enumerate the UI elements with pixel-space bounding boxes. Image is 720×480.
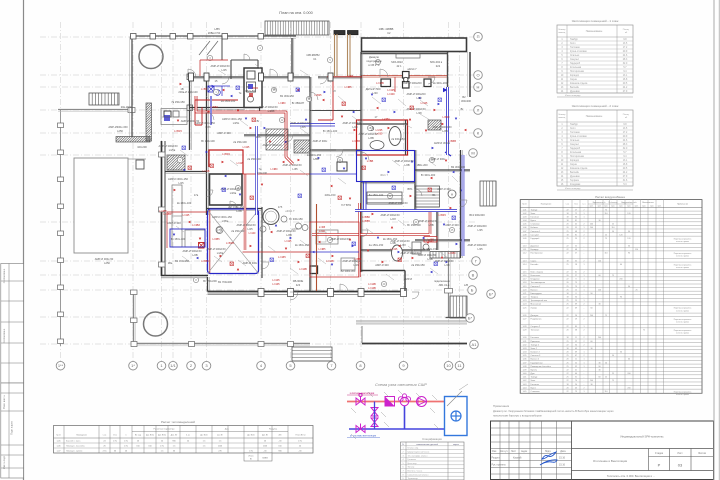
svg-text:1: 1 — [583, 279, 584, 281]
svg-text:АМР-И 300х150: АМР-И 300х150 — [158, 144, 178, 148]
svg-text:22: 22 — [566, 246, 568, 248]
svg-text:Санузел: Санузел — [570, 59, 580, 61]
fan symbol circle M — [448, 190, 456, 198]
svg-text:Спальня: Спальня — [570, 55, 580, 57]
svg-text:30: 30 — [628, 286, 630, 288]
svg-text:L=440: L=440 — [427, 240, 434, 243]
svg-text:Индивидуальный SPA-комплекс: Индивидуальный SPA-комплекс — [620, 435, 664, 439]
svg-text:Кухня: Кухня — [531, 220, 536, 222]
pool room blue walls — [208, 209, 259, 274]
svg-text:Гардероб: Гардероб — [531, 238, 541, 240]
svg-text:L=В50: L=В50 — [201, 259, 209, 263]
svg-text:8: 8 — [575, 293, 576, 295]
svg-text:10В-9ВУВ2: 10В-9ВУВ2 — [306, 53, 320, 57]
right rooms dividers — [361, 150, 470, 252]
svg-text:2в 300х-200: 2в 300х-200 — [433, 81, 448, 85]
svg-text:помещ.: помещ. — [558, 117, 566, 119]
svg-text:Диаметр эл. безружными блоками: Диаметр эл. безружными блоками главбашко… — [493, 409, 614, 413]
svg-text:Ванная: Ванная — [531, 289, 538, 291]
svg-text:18: 18 — [566, 216, 568, 218]
shelf rect above jacuzzi — [396, 54, 420, 58]
svg-text:Постирочная: Постирочная — [570, 156, 585, 158]
svg-text:22: 22 — [566, 369, 568, 371]
red fixture square corridor — [199, 243, 205, 249]
svg-text:30х1 7: 30х1 7 — [380, 173, 388, 177]
svg-text:Бассейн с ванн.: Бассейн с ванн. — [66, 440, 81, 443]
svg-text:L/26: L/26 — [205, 125, 211, 129]
svg-text:Джакузи: Джакузи — [369, 55, 380, 59]
svg-text:1В: 1В — [180, 87, 183, 91]
svg-text:Дв. Вт/м: Дв. Вт/м — [200, 435, 208, 437]
svg-text:1-34: 1-34 — [523, 352, 527, 354]
svg-text:52: 52 — [575, 341, 577, 343]
svg-text:57: 57 — [575, 253, 577, 255]
svg-text:Душевая: Душевая — [531, 246, 539, 248]
svg-text:110: 110 — [611, 227, 614, 229]
svg-text:20: 20 — [566, 224, 568, 226]
porch stairs top-left — [89, 93, 119, 105]
jacuzzi dumbbell — [403, 72, 410, 89]
svg-text:81: 81 — [575, 220, 577, 222]
extra red value labels — [183, 86, 457, 261]
svg-text:Итого: Итого — [249, 456, 254, 458]
svg-text:1-26: 1-26 — [523, 315, 527, 317]
wall x310 vertical — [309, 77, 311, 150]
svg-text:естеств. приток: естеств. приток — [676, 333, 689, 335]
svg-text:L/26в: L/26в — [217, 251, 224, 255]
svg-text:18: 18 — [566, 293, 568, 295]
fan coil unit box (blue) — [445, 391, 468, 436]
svg-text:1/1: 1/1 — [170, 363, 176, 368]
svg-text:Б: Б — [471, 287, 474, 292]
svg-text:90: 90 — [620, 297, 622, 299]
svg-text:естеств. приток: естеств. приток — [676, 256, 689, 258]
svg-text:Гардероб: Гардероб — [570, 148, 581, 150]
svg-text:Массажная: Массажная — [531, 304, 542, 306]
svg-text:L=440: L=440 — [249, 232, 256, 235]
svg-text:18: 18 — [566, 384, 568, 386]
bed furniture bottom room — [316, 230, 355, 270]
wall vertical x361 — [360, 52, 362, 272]
svg-text:Дв. Вт/м: Дв. Вт/м — [247, 435, 255, 437]
svg-text:Согласовано: Согласовано — [3, 328, 6, 343]
svg-text:25: 25 — [566, 366, 568, 368]
svg-text:20: 20 — [575, 384, 577, 386]
svg-text:L=ЗВ0: L=ЗВ0 — [448, 252, 456, 255]
wall horizontal y135 — [244, 134, 310, 136]
svg-text:Экспликация помещений - 2 этаж: Экспликация помещений - 2 этаж — [572, 104, 619, 108]
svg-text:1-20: 1-20 — [523, 289, 527, 291]
svg-text:L=44В: L=44В — [203, 170, 210, 173]
svg-text:120: 120 — [627, 213, 630, 215]
svg-text:L=4ВВ: L=4ВВ — [352, 139, 360, 143]
svg-text:1: 1 — [583, 275, 584, 277]
svg-text:SPA-0022: SPA-0022 — [391, 60, 403, 64]
svg-text:Коридор: Коридор — [531, 249, 540, 251]
svg-text:L/25: L/25 — [247, 227, 253, 231]
svg-text:1-05: 1-05 — [523, 224, 527, 226]
top-left deck edge lines — [130, 37, 133, 138]
svg-text:Стадия: Стадия — [655, 452, 664, 455]
wall x310 lower — [309, 150, 311, 291]
red-brown riser line — [316, 204, 318, 291]
main horizontal wall y77 — [189, 77, 362, 79]
svg-text:Сауна: Сауна — [531, 260, 538, 262]
svg-text:27.9: 27.9 — [623, 176, 628, 178]
svg-text:Подп. и дата: Подп. и дата — [12, 421, 14, 435]
svg-text:34: 34 — [575, 297, 577, 299]
svg-text:Циркуляционный насос: Циркуляционный насос — [408, 451, 430, 454]
svg-text:Б*: Б* — [489, 291, 494, 296]
red room with bath (right wing) — [357, 120, 408, 155]
blue arrows scattered — [173, 85, 463, 273]
svg-text:110: 110 — [604, 253, 607, 255]
pool room label circle — [216, 227, 223, 234]
blue room loop (sauna area) — [357, 151, 415, 182]
svg-text:L=425: L=425 — [421, 102, 428, 105]
svg-text:А1: А1 — [472, 342, 478, 347]
svg-text:АМР-И 300х150: АМР-И 300х150 — [290, 121, 310, 125]
svg-text:2.9ч: 2.9ч — [124, 446, 128, 448]
red boxed label — [424, 237, 437, 243]
svg-text:АМР-И 300х150: АМР-И 300х150 — [206, 247, 226, 251]
wall vertical x460 lower right — [460, 150, 462, 258]
top-left porch edge — [58, 108, 135, 113]
svg-text:Подп.: Подп. — [545, 450, 552, 453]
svg-text:АМР-И 300х150: АМР-И 300х150 — [390, 239, 410, 243]
svg-text:помещ.: помещ. — [558, 32, 566, 34]
svg-text:75: 75 — [605, 238, 607, 240]
svg-text:20: 20 — [566, 282, 568, 284]
svg-text:АМР-И 300х150: АМР-И 300х150 — [418, 219, 438, 223]
wall x189 ticks — [187, 74, 193, 111]
svg-text:Раздел: Раздел — [492, 457, 501, 460]
svg-text:L/З5: L/З5 — [292, 167, 298, 171]
red duct horizontal y174/y252 — [243, 174, 311, 252]
wall horizontal y150 center — [310, 149, 362, 151]
svg-text:18: 18 — [566, 234, 568, 236]
wall horizontal y107 kitchen top — [189, 107, 245, 109]
svg-text:Прихожая: Прихожая — [531, 341, 540, 343]
svg-text:О: О — [476, 72, 479, 77]
entry double door diagonals — [199, 41, 218, 55]
wall horizontal y207 left — [207, 208, 263, 210]
svg-text:наименование деталей: наименование деталей — [416, 443, 438, 446]
svg-text:L=4В5: L=4В5 — [159, 209, 167, 213]
svg-text:200: 200 — [627, 387, 630, 389]
red labels extra — [159, 74, 353, 271]
svg-text:22: 22 — [566, 391, 568, 393]
notes Примечания — [493, 404, 614, 418]
svg-text:24.2: 24.2 — [623, 172, 628, 174]
svg-text:60: 60 — [598, 275, 600, 277]
supply pipe (red) — [347, 401, 444, 403]
svg-text:74: 74 — [575, 380, 577, 382]
svg-text:L/2В: L/2В — [192, 253, 198, 257]
svg-text:L=44В: L=44В — [368, 282, 376, 286]
svg-text:Вт 150х-100: Вт 150х-100 — [323, 129, 338, 133]
svg-text:18: 18 — [566, 337, 568, 339]
svg-text:90: 90 — [598, 366, 600, 368]
svg-text:Холл: Холл — [570, 128, 576, 130]
svg-text:L/05: L/05 — [300, 125, 306, 129]
svg-text:1-14: 1-14 — [523, 264, 527, 266]
svg-text:L/38: L/38 — [416, 111, 422, 115]
svg-text:1-16: 1-16 — [523, 275, 527, 277]
svg-text:L=4В: L=4В — [347, 74, 353, 78]
svg-text:прит.: прит. — [598, 206, 602, 208]
svg-text:В13 300х300: В13 300х300 — [469, 213, 485, 217]
svg-text:прит.: прит. — [627, 206, 631, 208]
svg-text:м²: м² — [625, 116, 628, 119]
svg-text:Итого площадь: Итого площадь — [565, 95, 581, 97]
svg-text:Кашкой: Кашкой — [513, 457, 522, 460]
svg-text:АМР-И 300х150: АМР-И 300х150 — [342, 121, 362, 125]
wall horizontal y171 left block — [165, 171, 207, 173]
svg-text:32: 32 — [575, 366, 577, 368]
svg-text:L/26: L/26 — [353, 263, 359, 267]
svg-text:2.9ч: 2.9ч — [160, 446, 164, 448]
svg-text:L/ЗВ: L/ЗВ — [236, 209, 242, 213]
wall vertical x259 — [259, 76, 261, 112]
svg-text:подогреваты: подогреваты — [366, 60, 381, 63]
svg-text:L=4ВЗ: L=4ВЗ — [192, 223, 200, 227]
svg-text:L/2Л: L/2Л — [390, 217, 396, 221]
svg-text:Вт ЗВ0х-150: Вт ЗВ0х-150 — [423, 247, 438, 251]
black block K1 at top — [334, 31, 345, 35]
svg-text:18: 18 — [575, 264, 577, 266]
svg-text:Гостиная: Гостиная — [531, 216, 539, 218]
svg-text:L/ВВ: L/ВВ — [313, 157, 319, 161]
svg-text:7п? ВП1: 7п? ВП1 — [341, 203, 352, 207]
svg-text:50: 50 — [612, 231, 614, 233]
svg-text:25: 25 — [612, 224, 614, 226]
svg-text:25: 25 — [566, 355, 568, 357]
red duct left room — [167, 212, 207, 248]
svg-text:100-200: 100-200 — [137, 145, 147, 149]
svg-text:Р: Р — [658, 463, 661, 468]
svg-text:АМР-И 300х200: АМР-И 300х200 — [406, 92, 426, 96]
svg-text:Листов: Листов — [698, 452, 706, 455]
svg-text:L=42В: L=42В — [376, 81, 384, 85]
three-way mixing valve — [399, 394, 411, 406]
svg-text:1-29: 1-29 — [523, 330, 527, 332]
svg-text:t, ос: t, ос — [566, 202, 569, 205]
sauna stove square — [310, 266, 318, 274]
svg-text:Кабинет: Кабинет — [531, 227, 539, 229]
svg-text:20: 20 — [566, 275, 568, 277]
svg-text:АМР-И 300х-50: АМР-И 300х-50 — [418, 253, 437, 257]
svg-text:Столовая: Столовая — [531, 391, 540, 393]
red duct upper-left rooms — [200, 60, 258, 88]
SE corner colonnade and window band — [430, 252, 467, 319]
svg-text:L=425: L=425 — [243, 146, 250, 149]
svg-text:ВП1: ВП1 — [407, 187, 413, 191]
svg-text:АМР-И 300х-150: АМР-И 300х-150 — [168, 177, 188, 181]
svg-text:Дот. Вт/м: Дот. Вт/м — [158, 435, 167, 437]
svg-text:22: 22 — [566, 249, 568, 251]
svg-text:Котельная: Котельная — [570, 67, 582, 69]
svg-text:2: 2 — [583, 387, 584, 389]
svg-text:L=445: L=445 — [272, 278, 280, 282]
svg-text:79: 79 — [575, 391, 577, 393]
door arcs — [188, 54, 467, 300]
svg-text:L/В5: L/В5 — [214, 27, 220, 31]
svg-text:10: 10 — [446, 363, 451, 368]
svg-text:69: 69 — [575, 352, 577, 354]
svg-text:11: 11 — [575, 337, 577, 339]
svg-text:1-09: 1-09 — [523, 238, 527, 240]
svg-text:Взам. инв №: Взам. инв № — [3, 395, 6, 409]
svg-text:28.3: 28.3 — [623, 144, 628, 146]
svg-text:В1: В1 — [246, 85, 250, 89]
svg-text:Санузел 2: Санузел 2 — [531, 326, 541, 328]
svg-text:52: 52 — [575, 246, 577, 248]
terrace left wall (column 1*) — [131, 290, 138, 345]
svg-text:L=4В5: L=4В5 — [345, 86, 353, 89]
staircase center — [416, 186, 440, 207]
svg-text:1-04: 1-04 — [523, 220, 527, 222]
svg-text:1-36: 1-36 — [523, 359, 527, 361]
svg-text:Джакузи: Джакузи — [531, 315, 539, 317]
svg-text:L/25о: L/25о — [233, 121, 240, 125]
svg-text:L/2В: L/2В — [428, 223, 434, 227]
svg-text:30: 30 — [590, 348, 592, 350]
right grid bubbles — [466, 32, 496, 348]
svg-text:2в 150х-150: 2в 150х-150 — [295, 243, 310, 247]
svg-text:Кабинет 2: Кабинет 2 — [531, 352, 541, 354]
svg-text:Расчет воздухообмена: Расчет воздухообмена — [595, 195, 625, 199]
terrace circle (top-left deck) — [139, 45, 163, 69]
svg-text:200: 200 — [627, 373, 630, 375]
svg-text:1-42: 1-42 — [523, 380, 527, 382]
svg-text:L/35: L/35 — [477, 247, 483, 251]
diffuser glyphs scatter — [182, 86, 456, 266]
svg-text:Дот. Вт: Дот. Вт — [262, 435, 268, 437]
svg-text:Гостиная: Гостиная — [570, 47, 580, 49]
svg-text:73: 73 — [575, 282, 577, 284]
svg-text:К22: К22 — [436, 64, 441, 68]
wall vertical x191 — [189, 75, 191, 150]
svg-text:38: 38 — [575, 330, 577, 332]
svg-text:Механическая: Механическая — [642, 202, 653, 204]
svg-text:1-31: 1-31 — [523, 341, 527, 343]
main left wall (hatched) — [159, 141, 166, 276]
svg-text:1-13: 1-13 — [523, 260, 527, 262]
svg-text:В2 300х300: В2 300х300 — [451, 165, 465, 169]
svg-text:Инв № подл.: Инв № подл. — [3, 455, 6, 469]
svg-text:АМР-И 300х: АМР-И 300х — [313, 139, 328, 143]
svg-text:В2: В2 — [462, 95, 466, 99]
svg-text:АМР-И 300х150: АМР-И 300х150 — [406, 107, 426, 111]
svg-text:L=В50: L=В50 — [355, 258, 363, 261]
svg-text:АМР-И 300х200: АМР-И 300х200 — [402, 81, 422, 85]
tan chimney line 1 — [335, 34, 338, 76]
svg-text:марка: марка — [453, 444, 460, 446]
svg-text:1-32: 1-32 — [523, 344, 527, 346]
svg-text:20: 20 — [566, 352, 568, 354]
red supply line jacuzzi room — [361, 76, 447, 78]
svg-text:L=В40: L=В40 — [443, 116, 451, 119]
svg-text:Кол.уч: Кол.уч — [500, 450, 508, 453]
svg-text:Вентиль / насос: Вентиль / насос — [408, 471, 423, 473]
svg-text:25: 25 — [635, 289, 637, 291]
svg-text:7в 150х150: 7в 150х150 — [171, 100, 185, 104]
svg-text:Топочная: Топочная — [531, 330, 540, 332]
wall vertical x206 — [206, 76, 208, 215]
svg-text:2В: 2В — [369, 127, 372, 130]
svg-text:90: 90 — [628, 231, 630, 233]
svg-text:34: 34 — [575, 344, 577, 346]
svg-text:25: 25 — [566, 238, 568, 240]
red arrows scattered — [174, 83, 467, 271]
SW corner wall step — [208, 277, 259, 293]
stairs right side — [480, 181, 496, 206]
svg-text:89: 89 — [575, 326, 577, 328]
svg-text:2: 2 — [583, 224, 584, 226]
svg-text:Теплосеть отм. 0.000. Вентиляц: Теплосеть отм. 0.000. Вентиляция и ... — [607, 474, 655, 478]
svg-text:25: 25 — [612, 373, 614, 375]
svg-text:1-43: 1-43 — [523, 384, 527, 386]
svg-text:26: 26 — [575, 315, 577, 317]
svg-text:Спальня 1: Спальня 1 — [531, 231, 542, 233]
svg-text:72: 72 — [575, 213, 577, 215]
svg-text:L=ВЗВ: L=ВЗВ — [448, 139, 456, 143]
svg-text:L=40: L=40 — [319, 229, 325, 233]
svg-text:L=425: L=425 — [391, 248, 398, 251]
svg-text:Вт 150х-100: Вт 150х-100 — [171, 237, 186, 241]
table Экспликация помещений - 2 этаж — [557, 104, 633, 190]
blue duct top-left room short — [210, 96, 212, 125]
blue duct lower right riser — [462, 155, 465, 256]
svg-text:Душевая: Душевая — [570, 176, 580, 178]
svg-text:1Вб: 1Вб — [256, 135, 261, 139]
bottom-left building wall — [161, 276, 208, 278]
svg-text:n: n — [125, 435, 126, 437]
svg-text:Кухня-столовая: Кухня-столовая — [570, 136, 587, 138]
wall under beam — [362, 53, 449, 55]
svg-text:1: 1 — [583, 362, 584, 364]
svg-text:75: 75 — [605, 209, 607, 211]
svg-text:L/ЗВ: L/ЗВ — [286, 233, 292, 237]
fireplace center — [337, 162, 347, 171]
svg-text:Гардеробная: Гардеробная — [531, 362, 543, 364]
svg-text:L/З5а: L/З5а — [222, 219, 229, 223]
svg-text:17а: 17а — [194, 193, 199, 197]
upper-left inner wall vertical hatched — [108, 103, 192, 141]
kitchen fan symbol (blue) — [208, 86, 220, 95]
svg-text:Терраса: Терраса — [531, 297, 540, 299]
svg-text:230х-150: 230х-150 — [325, 193, 336, 197]
stairs bottom right wing — [450, 296, 467, 318]
svg-text:2в 150х-100: 2в 150х-100 — [177, 201, 192, 205]
svg-text:АМР-И 300: АМР-И 300 — [167, 221, 181, 225]
svg-text:7б: 7б — [301, 147, 304, 151]
svg-text:Отопление и Вентиляция: Отопление и Вентиляция — [593, 459, 628, 463]
red duct kitchen loop — [195, 100, 238, 125]
svg-text:75: 75 — [612, 380, 614, 382]
svg-text:АМР-И 300х150: АМР-И 300х150 — [282, 163, 302, 167]
svg-text:1: 1 — [583, 264, 584, 266]
svg-text:25: 25 — [566, 304, 568, 306]
svg-text:22: 22 — [566, 271, 568, 273]
svg-text:2а 150х-150: 2а 150х-150 — [369, 243, 384, 247]
svg-text:Бассейн: Бассейн — [570, 86, 580, 89]
svg-text:Тамбур: Тамбур — [570, 39, 579, 41]
svg-text:20: 20 — [566, 359, 568, 361]
svg-text:L/25в: L/25в — [169, 148, 176, 152]
inner wall y110 center — [310, 110, 361, 112]
